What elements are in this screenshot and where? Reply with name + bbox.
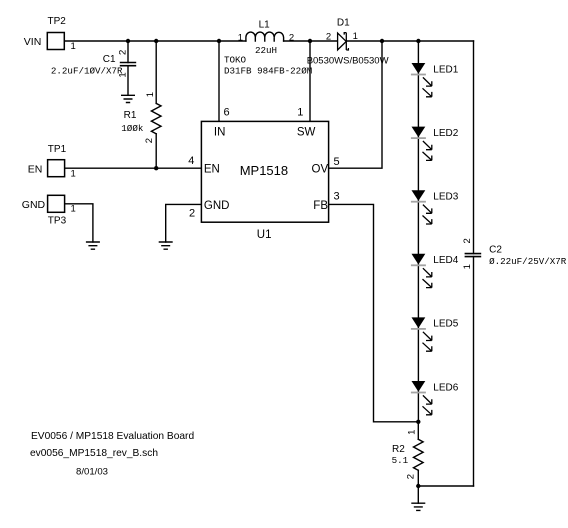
svg-text:LED1: LED1 xyxy=(433,64,458,75)
capacitor C2 xyxy=(465,254,480,257)
wire R1 to EN xyxy=(155,134,157,168)
LED1 xyxy=(411,63,459,97)
svg-text:1ØØk: 1ØØk xyxy=(121,123,144,134)
wire TP3 xyxy=(65,204,93,242)
wire OV pin xyxy=(329,41,382,168)
svg-text:C2: C2 xyxy=(489,245,502,256)
testpoint TP1 xyxy=(28,144,76,180)
title block text xyxy=(30,431,194,477)
svg-text:LED6: LED6 xyxy=(433,382,458,393)
svg-text:B0530WS/B0530W: B0530WS/B0530W xyxy=(307,56,389,67)
op-amp U1 MP1518 box xyxy=(188,107,339,241)
junction LED chain top node xyxy=(416,39,420,43)
capacitor C1 xyxy=(121,63,136,66)
svg-text:TOKO: TOKO xyxy=(224,54,247,65)
wire SW pin xyxy=(309,41,311,121)
wire R1 branch top xyxy=(155,41,157,103)
svg-text:LED2: LED2 xyxy=(433,128,458,139)
svg-text:TP2: TP2 xyxy=(48,16,67,27)
wire right rail down xyxy=(473,41,475,486)
LED6 anode triangle xyxy=(412,381,426,392)
LED1 anode triangle xyxy=(412,63,426,74)
junction C1/VIN node xyxy=(126,39,130,43)
svg-text:EN: EN xyxy=(204,164,220,176)
svg-text:D1: D1 xyxy=(337,18,350,29)
junction SW pin node xyxy=(308,39,312,43)
svg-text:2: 2 xyxy=(405,474,416,479)
LED1 emission arrows xyxy=(423,77,432,96)
LED6 xyxy=(411,381,459,415)
svg-text:TP3: TP3 xyxy=(48,216,67,227)
svg-text:GND: GND xyxy=(204,200,230,212)
LED2 xyxy=(411,127,459,161)
svg-text:5.1: 5.1 xyxy=(392,455,409,466)
resistor R1 xyxy=(151,103,161,133)
LED6 cathode bar xyxy=(411,392,426,394)
LED3 cathode bar xyxy=(411,201,426,203)
svg-text:2.2uF/1ØV/X7R: 2.2uF/1ØV/X7R xyxy=(51,65,123,76)
LED5 emission arrows xyxy=(423,332,432,351)
svg-text:LED5: LED5 xyxy=(433,319,458,330)
svg-text:U1: U1 xyxy=(257,229,272,241)
svg-text:FB: FB xyxy=(313,200,328,212)
svg-text:OV: OV xyxy=(312,164,329,176)
svg-text:2: 2 xyxy=(144,138,155,143)
svg-text:3: 3 xyxy=(334,190,340,202)
LED2 cathode bar xyxy=(411,137,426,139)
svg-text:5: 5 xyxy=(334,156,340,168)
svg-text:2: 2 xyxy=(326,32,331,43)
inductor L1 labels xyxy=(224,20,312,77)
ground (TP3) xyxy=(86,242,100,249)
svg-text:2: 2 xyxy=(189,207,195,219)
svg-text:1: 1 xyxy=(71,41,76,52)
svg-text:1: 1 xyxy=(462,264,473,269)
svg-text:MP1518: MP1518 xyxy=(240,163,288,178)
testpoint TP3 xyxy=(22,195,76,226)
resistor R2 labels xyxy=(392,430,418,480)
svg-text:6: 6 xyxy=(224,107,230,119)
LED2 emission arrows xyxy=(423,141,432,160)
svg-text:22uH: 22uH xyxy=(255,45,277,56)
wire LED chain xyxy=(417,41,419,422)
svg-text:EN: EN xyxy=(28,163,43,175)
svg-text:R1: R1 xyxy=(124,110,137,121)
svg-text:1: 1 xyxy=(118,72,129,77)
svg-text:SW: SW xyxy=(297,127,316,139)
LED4 emission arrows xyxy=(423,268,432,287)
svg-text:1: 1 xyxy=(407,430,418,435)
ground (R2) xyxy=(411,503,425,510)
LED3 emission arrows xyxy=(423,205,432,224)
svg-text:IN: IN xyxy=(214,127,226,139)
wire GND pin xyxy=(166,204,202,242)
LED4 cathode bar xyxy=(411,264,426,266)
svg-text:TP1: TP1 xyxy=(48,144,67,155)
ground (U1 GND pin) xyxy=(159,242,173,249)
svg-text:C1: C1 xyxy=(103,54,116,65)
svg-text:1: 1 xyxy=(297,107,303,119)
wire FB pin xyxy=(329,204,419,421)
LED2 anode triangle xyxy=(412,127,426,138)
capacitor C2 labels xyxy=(462,238,567,269)
svg-text:R2: R2 xyxy=(392,444,405,455)
resistor R1 labels xyxy=(121,92,156,143)
wire IN pin xyxy=(218,41,220,121)
ground (C1) xyxy=(121,95,135,102)
LED5 cathode bar xyxy=(411,328,426,330)
junction IN pin node xyxy=(217,39,221,43)
resistor R2 xyxy=(414,439,424,470)
svg-text:1: 1 xyxy=(238,32,243,43)
wire main top rail VIN to right xyxy=(64,40,473,42)
svg-text:2: 2 xyxy=(462,238,473,243)
svg-text:VIN: VIN xyxy=(24,36,42,48)
junction R1/EN node xyxy=(154,166,158,170)
capacitor C1 labels xyxy=(51,50,129,78)
inductor L1 xyxy=(246,32,284,41)
svg-text:1: 1 xyxy=(71,203,76,214)
svg-text:1: 1 xyxy=(145,92,156,97)
LED1 cathode bar xyxy=(411,74,426,76)
svg-text:Ø.22uF/25V/X7R: Ø.22uF/25V/X7R xyxy=(489,256,567,267)
svg-text:4: 4 xyxy=(188,155,194,167)
LED3 xyxy=(411,190,459,224)
svg-text:LED3: LED3 xyxy=(433,192,458,203)
svg-text:8/01/03: 8/01/03 xyxy=(76,466,108,477)
wire EN TP1 to U1 xyxy=(65,167,201,169)
junction OV pin node xyxy=(380,39,384,43)
svg-text:2: 2 xyxy=(118,50,129,55)
junction FB/LED6/R2 node xyxy=(416,420,420,424)
junction R2/ground node xyxy=(416,484,420,488)
testpoint TP2 xyxy=(24,16,76,52)
svg-text:D31FB 984FB-22ØM: D31FB 984FB-22ØM xyxy=(224,66,312,77)
svg-text:1: 1 xyxy=(353,31,358,42)
LED5 xyxy=(411,317,459,351)
LED3 anode triangle xyxy=(412,190,426,201)
LED5 anode triangle xyxy=(412,317,426,328)
wire R2 leads xyxy=(417,422,419,503)
diode D1 xyxy=(338,33,349,50)
junction R1/VIN node xyxy=(154,39,158,43)
LED6 emission arrows xyxy=(423,395,432,414)
svg-text:EV0056 / MP1518 Evaluation Boa: EV0056 / MP1518 Evaluation Board xyxy=(31,431,194,442)
LED4 xyxy=(411,254,459,288)
LED4 anode triangle xyxy=(412,254,426,265)
diode D1 labels xyxy=(307,18,389,67)
svg-text:2: 2 xyxy=(289,32,294,43)
wire C1 branch xyxy=(127,41,129,95)
svg-text:ev0056_MP1518_rev_B.sch: ev0056_MP1518_rev_B.sch xyxy=(30,448,158,459)
svg-text:1: 1 xyxy=(71,169,76,180)
svg-text:GND: GND xyxy=(22,199,46,211)
wire bottom right to R2 xyxy=(418,485,473,487)
svg-text:LED4: LED4 xyxy=(433,255,458,266)
svg-text:L1: L1 xyxy=(259,20,271,31)
